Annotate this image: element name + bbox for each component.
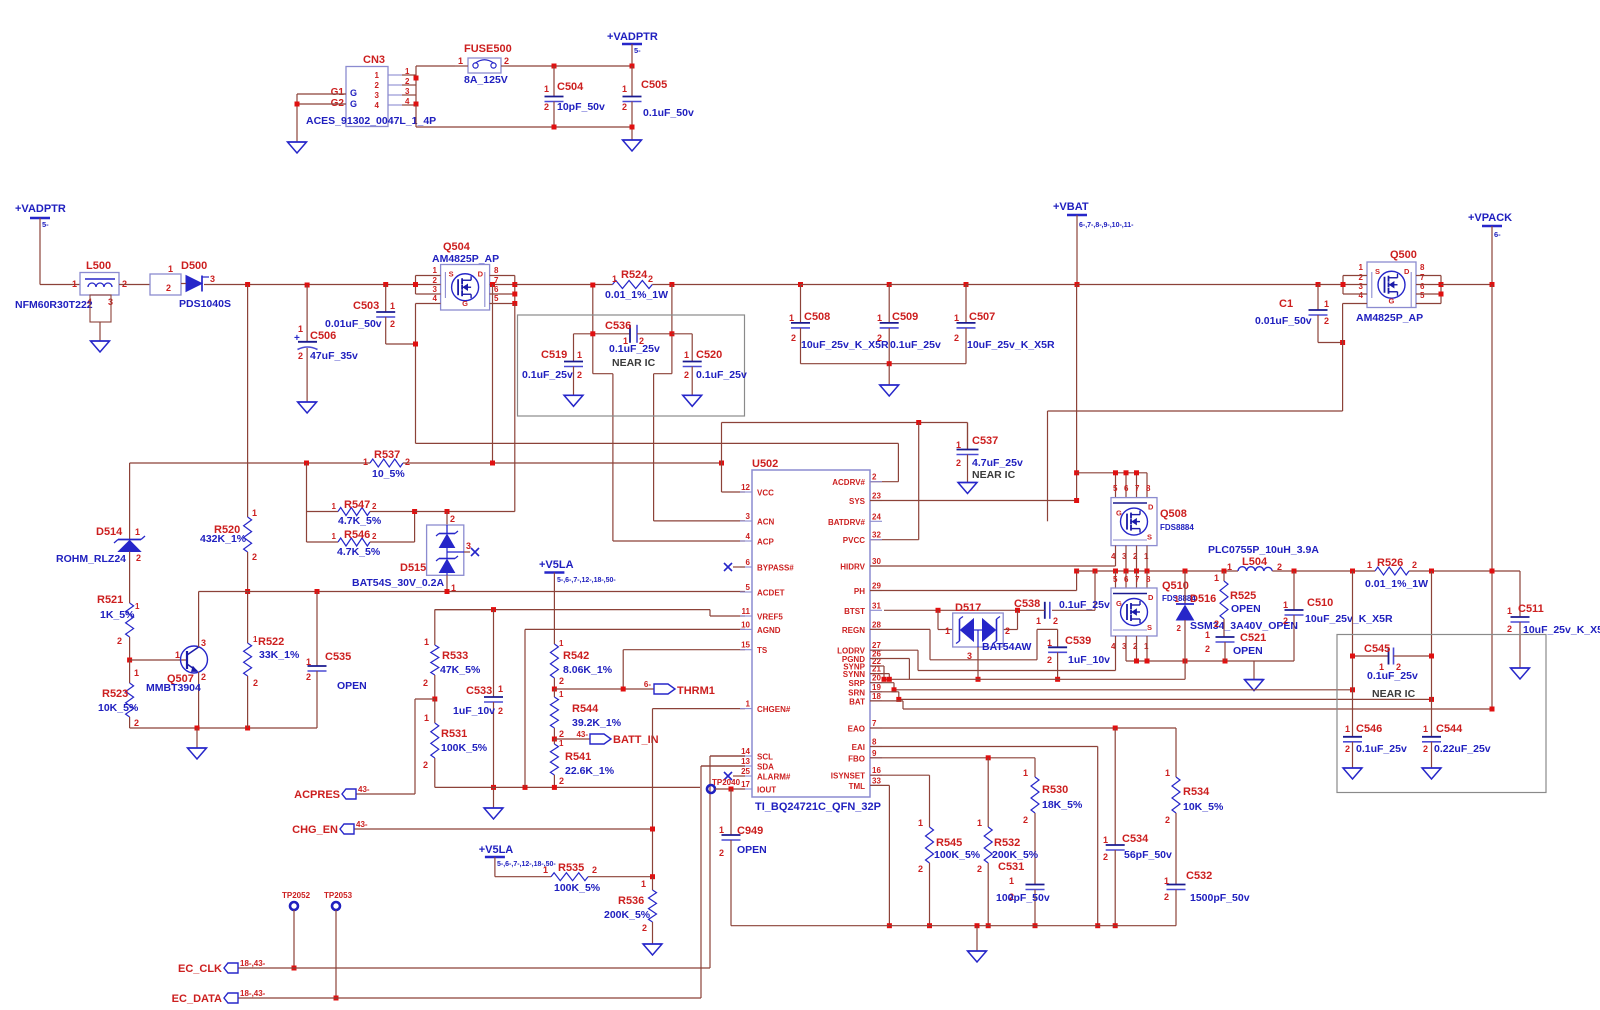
diode D500	[150, 260, 231, 310]
svg-text:G: G	[350, 99, 357, 109]
svg-text:ACDRV#: ACDRV#	[832, 478, 865, 487]
capacitor C531	[996, 861, 1050, 926]
svg-text:1: 1	[134, 668, 139, 678]
svg-text:2: 2	[684, 370, 689, 380]
svg-text:1: 1	[433, 266, 438, 275]
op-amp U502 TI_BQ24721C	[740, 458, 882, 813]
svg-text:6: 6	[746, 558, 751, 567]
svg-text:2: 2	[1214, 619, 1219, 629]
power symbol +VPACK	[1468, 212, 1512, 285]
resistor R530	[1023, 758, 1083, 885]
svg-text:NEAR IC: NEAR IC	[972, 469, 1016, 481]
wire TML net	[870, 785, 889, 925]
junction PH pins 3/6	[1124, 569, 1129, 574]
svg-text:1: 1	[559, 690, 564, 699]
svg-text:0.01uF_50v: 0.01uF_50v	[1255, 315, 1312, 327]
svg-text:4.7uF_25v: 4.7uF_25v	[972, 457, 1023, 469]
svg-text:2: 2	[390, 319, 395, 329]
svg-text:2: 2	[134, 718, 139, 728]
svg-text:10_5%: 10_5%	[372, 468, 405, 480]
junction BAT / VPACK riser	[1490, 707, 1495, 712]
svg-text:OPEN: OPEN	[737, 844, 767, 856]
ground C505	[623, 140, 642, 151]
svg-text:R521: R521	[97, 594, 123, 606]
svg-text:L500: L500	[86, 260, 111, 272]
wire CHGEN# net	[354, 709, 745, 877]
capacitor C545	[1353, 643, 1432, 700]
no-connect BYPASS#	[724, 563, 745, 571]
junction BATT_IN node	[552, 737, 557, 742]
svg-text:43-: 43-	[576, 730, 588, 739]
svg-text:2: 2	[592, 865, 597, 875]
svg-text:0.01_1%_1W: 0.01_1%_1W	[1365, 578, 1428, 590]
svg-text:100K_5%: 100K_5%	[934, 849, 981, 861]
junction R532 top	[986, 755, 991, 760]
junction +VBAT rail	[1075, 282, 1080, 287]
test point TP2040	[707, 778, 745, 793]
svg-text:1: 1	[168, 264, 173, 274]
junction C545 left	[1350, 654, 1355, 659]
svg-text:3: 3	[466, 541, 471, 551]
svg-text:1: 1	[363, 457, 368, 467]
wire BATT_IN	[554, 738, 590, 740]
junction SRP sense top	[1350, 569, 1355, 574]
svg-text:ALARM#: ALARM#	[757, 773, 791, 782]
connector ACPRES	[294, 785, 370, 801]
transistor Q500	[1356, 249, 1425, 324]
svg-text:SCL: SCL	[757, 753, 773, 762]
svg-text:33: 33	[872, 776, 881, 785]
junction PH pins 1/8	[1145, 569, 1150, 574]
wire CN3 G pins	[297, 94, 346, 142]
svg-text:AM4825P_AP: AM4825P_AP	[432, 253, 499, 265]
junction C533 top	[491, 607, 496, 612]
svg-text:1: 1	[954, 313, 959, 323]
svg-text:1: 1	[72, 279, 77, 289]
svg-text:TML: TML	[849, 782, 866, 791]
junction PH bus start	[1074, 569, 1079, 574]
wire Q507 emitter bus	[130, 727, 317, 729]
capacitor C520	[672, 334, 747, 396]
resistor R535	[495, 862, 653, 894]
wire SRN line	[870, 692, 1432, 700]
svg-text:Q500: Q500	[1390, 249, 1417, 261]
junction R545 bottom	[927, 923, 932, 928]
wire cap bus ground stem	[888, 364, 890, 385]
svg-text:0.1uF_25v: 0.1uF_25v	[890, 339, 941, 351]
svg-text:8: 8	[1420, 263, 1425, 272]
svg-text:ROHM_RLZ24: ROHM_RLZ24	[56, 553, 126, 565]
ground L500	[91, 341, 110, 352]
wire PVCC riser	[870, 423, 919, 540]
junction R533/R531 node	[432, 697, 437, 702]
svg-text:1: 1	[298, 324, 303, 334]
svg-text:1: 1	[458, 56, 463, 66]
svg-text:2: 2	[577, 370, 582, 380]
svg-text:C536: C536	[605, 320, 631, 332]
junction Q504 drain pin5	[512, 301, 517, 306]
svg-text:29: 29	[872, 582, 881, 591]
svg-text:NFM60R30T222: NFM60R30T222	[15, 299, 93, 311]
transistor Q510	[1111, 575, 1196, 651]
svg-text:2: 2	[1507, 624, 1512, 634]
junction C531 bottom	[1033, 923, 1038, 928]
svg-text:PVCC: PVCC	[843, 536, 865, 545]
svg-text:3: 3	[375, 91, 380, 100]
junction R532 bottom	[986, 923, 991, 928]
junction Q504 drain pin7	[512, 282, 517, 287]
wire rail Q500 to VPACK	[1441, 284, 1492, 286]
capacitor C533	[453, 610, 503, 788]
svg-text:1: 1	[1165, 768, 1170, 778]
svg-text:C511: C511	[1518, 603, 1544, 615]
svg-text:1: 1	[135, 527, 140, 537]
no-connect ALARM#	[724, 772, 745, 780]
svg-text:18-,43-: 18-,43-	[240, 989, 266, 998]
svg-text:8: 8	[1146, 484, 1151, 493]
svg-text:6: 6	[1124, 575, 1129, 584]
svg-text:+V5LA: +V5LA	[479, 844, 514, 856]
svg-text:1: 1	[559, 639, 564, 648]
junction C538 right riser	[1093, 569, 1098, 574]
svg-text:BATDRV#: BATDRV#	[828, 518, 866, 527]
wire L500 to D500	[119, 284, 150, 286]
svg-text:2: 2	[791, 333, 796, 343]
capacitor C505	[622, 66, 694, 140]
svg-text:1: 1	[498, 684, 503, 694]
capacitor C532	[1164, 870, 1250, 926]
svg-text:1: 1	[1227, 562, 1232, 572]
svg-text:23: 23	[872, 492, 881, 501]
svg-text:S: S	[449, 270, 454, 279]
svg-text:2: 2	[1412, 560, 1417, 570]
wire source bus ground stem	[1253, 661, 1255, 680]
svg-text:5-: 5-	[634, 46, 641, 55]
svg-text:R525: R525	[1230, 590, 1256, 602]
svg-text:D: D	[1404, 267, 1410, 276]
svg-text:1500pF_50v: 1500pF_50v	[1190, 892, 1250, 904]
connector CN3	[306, 54, 436, 127]
svg-text:R526: R526	[1377, 557, 1403, 569]
resistor R521	[97, 594, 140, 660]
svg-text:0.1uF_25v: 0.1uF_25v	[1367, 670, 1418, 682]
junction C539 bottom	[1055, 677, 1060, 682]
wire ACDET bus	[199, 591, 745, 593]
svg-text:2: 2	[954, 333, 959, 343]
svg-text:SRN: SRN	[848, 688, 865, 697]
junction cap bus ground	[887, 361, 892, 366]
resistor R545	[918, 818, 981, 926]
transistor Q507	[130, 592, 208, 729]
svg-text:R522: R522	[258, 636, 284, 648]
svg-text:100K_5%: 100K_5%	[554, 882, 601, 894]
svg-text:C520: C520	[696, 349, 722, 361]
junction R535/R536	[650, 874, 655, 879]
svg-text:15: 15	[741, 641, 750, 650]
svg-text:REGN: REGN	[842, 626, 865, 635]
junction R520 top	[245, 282, 250, 287]
svg-text:3: 3	[746, 512, 751, 521]
svg-text:1: 1	[1036, 616, 1041, 626]
svg-text:5: 5	[1113, 575, 1118, 584]
junction VPACK riser output	[1490, 569, 1495, 574]
svg-text:PLC0755P_10uH_3.9A: PLC0755P_10uH_3.9A	[1208, 544, 1319, 556]
svg-text:BAT: BAT	[849, 697, 865, 706]
wire REGN net	[870, 629, 1058, 659]
svg-text:6: 6	[1124, 484, 1129, 493]
resistor R520	[200, 285, 257, 592]
svg-text:2: 2	[956, 458, 961, 468]
wire rail C508 to C509	[801, 284, 890, 286]
svg-text:PDS1040S: PDS1040S	[179, 298, 231, 310]
box NEAR IC group C519/C536/C520	[518, 315, 745, 416]
svg-text:31: 31	[872, 601, 881, 610]
wire VCC feed drop	[492, 285, 494, 464]
svg-text:3: 3	[1359, 282, 1364, 291]
junction Q500 drain pin7	[1439, 282, 1444, 287]
svg-text:ACES_91302_0047L_1_4P: ACES_91302_0047L_1_4P	[306, 115, 436, 127]
svg-text:4: 4	[746, 532, 751, 541]
svg-text:D514: D514	[96, 526, 123, 538]
junction THRM1 node	[552, 687, 557, 692]
svg-text:33K_1%: 33K_1%	[259, 649, 300, 661]
wire PGND/SYNP line	[870, 659, 1185, 680]
svg-text:7: 7	[1135, 484, 1140, 493]
svg-text:432K_1%: 432K_1%	[200, 533, 247, 545]
svg-text:1: 1	[1359, 263, 1364, 272]
wire EAO net	[870, 727, 1176, 729]
svg-text:7: 7	[872, 719, 877, 728]
junction C510 top	[1292, 569, 1297, 574]
ground CN3	[288, 142, 307, 153]
svg-text:2: 2	[1283, 616, 1288, 626]
svg-text:AGND: AGND	[757, 626, 781, 635]
svg-text:2: 2	[648, 274, 653, 284]
svg-text:2: 2	[1423, 744, 1428, 754]
svg-text:18-,43-: 18-,43-	[240, 959, 266, 968]
svg-text:1: 1	[1345, 724, 1350, 734]
zener diode D514	[56, 463, 145, 603]
wire rail R524 to C508	[652, 284, 800, 286]
svg-text:R533: R533	[442, 650, 468, 662]
svg-text:OPEN: OPEN	[337, 680, 367, 692]
svg-text:2: 2	[622, 102, 627, 112]
svg-text:2: 2	[423, 678, 428, 688]
svg-text:4: 4	[1359, 291, 1364, 300]
wire SYNP jog	[870, 666, 884, 679]
wire Q500 drain bracket	[1416, 276, 1441, 304]
junction C545 right	[1429, 654, 1434, 659]
wire CN3 pins bracket	[402, 66, 416, 106]
svg-text:R537: R537	[374, 449, 400, 461]
wire THRM1 / TS	[554, 650, 745, 689]
svg-text:56pF_50v: 56pF_50v	[1124, 849, 1172, 861]
wire SRP line	[870, 683, 1353, 690]
svg-text:100K_5%: 100K_5%	[441, 742, 488, 754]
svg-text:ACP: ACP	[757, 538, 775, 547]
ground C537	[958, 483, 977, 494]
svg-text:1: 1	[684, 350, 689, 360]
junction C505 top	[630, 64, 635, 69]
svg-text:2: 2	[504, 56, 509, 66]
junction VCC feed / R537	[490, 461, 495, 466]
junction C1 top	[1316, 282, 1321, 287]
junction SRN jog	[896, 697, 901, 702]
svg-text:EC_CLK: EC_CLK	[178, 963, 222, 975]
wire R537 left net	[130, 462, 370, 464]
svg-text:25: 25	[741, 767, 750, 776]
wire Q500 gate	[1048, 304, 1368, 522]
svg-text:1: 1	[1367, 560, 1372, 570]
junction PH Q510 d5	[1113, 569, 1118, 574]
ground bottom bus	[968, 951, 987, 962]
wire ACP sense drop	[593, 285, 745, 541]
svg-text:1: 1	[956, 440, 961, 450]
svg-text:D: D	[478, 270, 484, 279]
svg-text:1: 1	[424, 637, 429, 647]
svg-text:8A_125V: 8A_125V	[464, 74, 508, 86]
wire D500 to Q504	[204, 284, 416, 286]
svg-text:1: 1	[544, 84, 549, 94]
junction SRN sense top	[1429, 569, 1434, 574]
svg-text:C535: C535	[325, 651, 351, 663]
resistor R522	[244, 592, 300, 729]
ground AGND bus	[484, 787, 503, 819]
wire FBO net	[870, 757, 1035, 759]
svg-text:0.1uF_50v: 0.1uF_50v	[643, 107, 694, 119]
svg-text:7: 7	[1420, 273, 1425, 282]
wire Q510 drain from PH bus	[1116, 571, 1148, 588]
svg-text:R536: R536	[618, 895, 644, 907]
svg-text:6: 6	[1420, 282, 1425, 291]
svg-text:10uF_25v_K_X5R: 10uF_25v_K_X5R	[1305, 613, 1393, 625]
svg-text:2: 2	[642, 923, 647, 933]
wire Q504 source bracket	[416, 276, 441, 295]
svg-text:30: 30	[872, 557, 881, 566]
test point TP2052	[282, 891, 311, 968]
svg-text:R531: R531	[441, 728, 467, 740]
wire Q504 drain bracket	[490, 276, 515, 304]
wire fuse output to C505	[508, 65, 632, 67]
svg-text:1: 1	[1283, 600, 1288, 610]
svg-text:3: 3	[210, 274, 215, 284]
junction Q508 drain 7	[1134, 470, 1139, 475]
svg-text:2: 2	[544, 102, 549, 112]
junction Q508 top bus / VBAT	[1074, 470, 1079, 475]
svg-text:R541: R541	[565, 751, 591, 763]
svg-text:10: 10	[741, 620, 750, 629]
svg-text:1: 1	[405, 67, 410, 76]
svg-text:R547: R547	[344, 499, 370, 511]
junction Q504 source rail	[413, 282, 418, 287]
wire Q508 source to PH bus	[1126, 546, 1147, 571]
svg-text:C519: C519	[541, 349, 567, 361]
svg-text:0.01_1%_1W: 0.01_1%_1W	[605, 289, 668, 301]
svg-text:4: 4	[433, 294, 438, 303]
junction ACN rail tap	[669, 282, 674, 287]
svg-text:TP2052: TP2052	[282, 891, 311, 900]
svg-text:1: 1	[746, 700, 751, 709]
svg-text:D500: D500	[181, 260, 207, 272]
junction Q504 gate / C503	[413, 342, 418, 347]
wire rail to L500	[40, 284, 80, 286]
capacitor C544	[1422, 723, 1491, 768]
connector EC_CLK	[178, 959, 266, 975]
svg-text:2: 2	[405, 77, 410, 86]
wire VCC to PVCC/C537	[722, 423, 968, 464]
svg-text:8: 8	[872, 738, 877, 747]
junction CN3 pins 1-2	[414, 76, 419, 81]
svg-text:2: 2	[1005, 626, 1010, 636]
svg-text:SDA: SDA	[757, 763, 774, 772]
ground C520	[683, 395, 702, 406]
svg-text:1: 1	[945, 626, 950, 636]
junction C521 bottom	[1223, 659, 1228, 664]
svg-text:6-: 6-	[644, 680, 651, 689]
connector BATT_IN	[576, 730, 658, 746]
svg-text:NEAR IC: NEAR IC	[612, 357, 656, 369]
wire SRN sense riser	[1431, 571, 1433, 737]
wire VREF5 line	[435, 610, 745, 616]
resistor R533	[423, 610, 494, 699]
junction CN3 G2	[295, 102, 300, 107]
svg-text:18K_5%: 18K_5%	[1042, 799, 1083, 811]
svg-text:1: 1	[577, 350, 582, 360]
svg-text:CHG_EN: CHG_EN	[292, 824, 338, 836]
svg-text:D: D	[1148, 503, 1154, 512]
svg-text:2: 2	[1047, 655, 1052, 665]
power symbol +VADPTR (rail)	[15, 203, 66, 285]
svg-text:R546: R546	[344, 529, 370, 541]
svg-text:1: 1	[1205, 630, 1210, 640]
svg-text:G: G	[462, 299, 468, 308]
svg-text:C534: C534	[1122, 833, 1149, 845]
svg-text:2: 2	[1023, 815, 1028, 825]
svg-text:1: 1	[306, 657, 311, 667]
junction AGND drop	[523, 785, 528, 790]
svg-text:S: S	[1147, 533, 1152, 542]
svg-text:HIDRV: HIDRV	[840, 563, 865, 572]
svg-text:2: 2	[375, 81, 380, 90]
wire ACDRV# gate drive	[416, 443, 899, 481]
svg-text:18: 18	[872, 692, 881, 701]
svg-text:C504: C504	[557, 81, 584, 93]
wire D515 pin1 to ACDET	[446, 575, 448, 591]
capacitor C504	[544, 66, 605, 127]
svg-text:1: 1	[789, 313, 794, 323]
svg-text:2: 2	[201, 672, 206, 682]
svg-text:C531: C531	[998, 861, 1024, 873]
svg-text:2: 2	[1165, 815, 1170, 825]
capacitor C534	[1103, 728, 1172, 926]
svg-text:+VBAT: +VBAT	[1053, 201, 1089, 213]
svg-text:NEAR IC: NEAR IC	[1372, 688, 1416, 700]
svg-text:2: 2	[498, 706, 503, 716]
svg-text:1: 1	[332, 532, 337, 541]
svg-text:BATT_IN: BATT_IN	[613, 734, 659, 746]
wire R547/R546 right bracket	[414, 512, 416, 543]
wire CN3 to fuse	[416, 65, 455, 67]
svg-text:C546: C546	[1356, 723, 1382, 735]
svg-text:4.7K_5%: 4.7K_5%	[337, 546, 381, 558]
junction SYNP	[882, 677, 887, 682]
capacitor C521	[1205, 630, 1266, 661]
svg-text:1uF_10v: 1uF_10v	[453, 705, 495, 717]
svg-text:CHGEN#: CHGEN#	[757, 705, 791, 714]
svg-text:L504: L504	[1242, 556, 1268, 568]
junction C508 top	[798, 282, 803, 287]
svg-text:G1: G1	[331, 87, 345, 98]
